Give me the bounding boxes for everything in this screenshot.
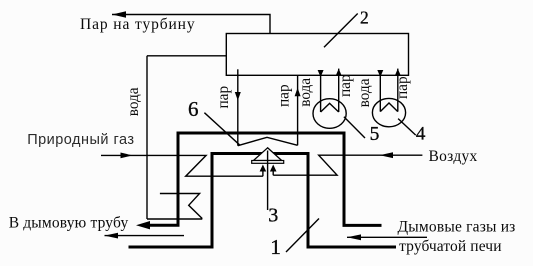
wire feedwater down line (146, 56, 148, 219)
wire feedwater top horizontal (147, 55, 226, 57)
arrowhead steam up to drum (295, 88, 301, 97)
svg-text:6: 6 (188, 97, 199, 121)
arrowhead air left (380, 152, 393, 158)
leader line 5 (344, 117, 365, 138)
arrowhead burner gas (260, 165, 267, 172)
wire water line to unit 5 (320, 75, 322, 112)
burner B3 plate (252, 161, 284, 164)
natural gas line (101, 155, 263, 176)
arrowhead gas right (121, 153, 133, 159)
svg-text:3: 3 (268, 205, 278, 227)
wire water line to unit 4 (379, 75, 381, 111)
arrowhead turbine (112, 11, 126, 18)
leader line 6 (204, 113, 239, 145)
svg-text:Дымовые газы из: Дымовые газы из (398, 219, 516, 236)
svg-text:вода: вода (125, 87, 142, 116)
evaporator U4 circle (372, 98, 405, 126)
air line (273, 155, 422, 175)
furnace casing outer wall (148, 133, 382, 225)
svg-text:трубчатой печи: трубчатой печи (399, 238, 501, 255)
drum U2 rectangle (226, 34, 408, 76)
wire steam line from unit 4 (397, 69, 399, 112)
wire steam-to-turbine line (112, 15, 270, 34)
svg-text:пар: пар (337, 74, 354, 97)
svg-text:В дымовую трубу: В дымовую трубу (9, 215, 129, 232)
leader line 4 (398, 119, 416, 136)
wire steam return line (297, 75, 299, 145)
furnace inner wall (129, 154, 397, 248)
arrowhead steam up U4 (395, 69, 401, 76)
arrowhead flue outlet thin (105, 233, 119, 239)
arrowhead water down U4 (377, 70, 383, 77)
evaporator U5 coil (321, 103, 339, 112)
svg-text:вода: вода (297, 78, 314, 107)
wire steam line from unit 5 (338, 69, 340, 112)
arrowhead steam up U5 (336, 69, 342, 76)
svg-text:пар: пар (276, 84, 293, 107)
svg-text:4: 4 (416, 124, 426, 145)
svg-text:5: 5 (370, 124, 380, 145)
burner stem to label 3 (267, 151, 269, 211)
arrowhead flue inlet (347, 234, 361, 240)
arrowhead burner air (270, 165, 277, 172)
flue outlet arrow shaft (105, 235, 185, 237)
arrowhead steam down (235, 92, 241, 101)
flue inlet arrow shaft (347, 236, 427, 238)
economizer coil (147, 194, 202, 220)
svg-text:вода: вода (356, 78, 373, 107)
leader line 1 (286, 219, 319, 253)
burner B3 triangle (254, 148, 282, 161)
evaporator U5 circle (313, 99, 346, 129)
arrowhead water down U5 (318, 70, 324, 77)
wire steam line to superheater (237, 69, 239, 145)
svg-text:пар: пар (215, 86, 232, 109)
superheater coil 6 (238, 137, 298, 145)
arrowhead flue outlet thick (136, 221, 150, 229)
svg-text:Воздух: Воздух (429, 148, 478, 165)
leader line 2 (324, 14, 358, 48)
evaporator U4 coil (380, 103, 398, 112)
svg-text:Природный газ: Природный газ (27, 132, 134, 148)
svg-text:Пар на турбину: Пар на турбину (80, 16, 195, 33)
svg-text:1: 1 (270, 235, 281, 259)
svg-text:2: 2 (360, 8, 369, 28)
svg-text:пар: пар (394, 76, 411, 99)
burner arrow shafts (263, 171, 273, 177)
